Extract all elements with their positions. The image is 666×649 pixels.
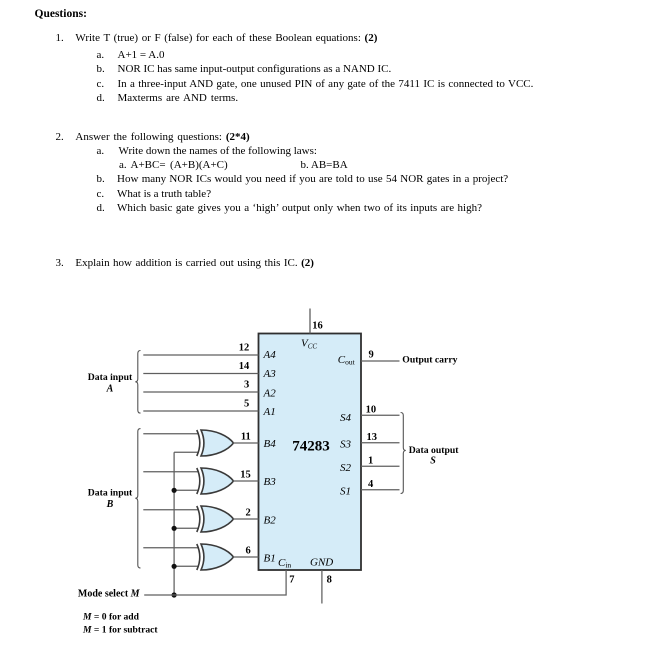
wire G2 output (233, 480, 259, 482)
svg-text:6: 6 (246, 546, 251, 557)
svg-text:Data input: Data input (88, 372, 133, 383)
brace data input B (135, 429, 140, 568)
wire G4 output (233, 556, 259, 558)
svg-text:12: 12 (239, 342, 250, 353)
wire Cout (361, 360, 400, 362)
svg-text:A2: A2 (263, 387, 277, 399)
wire B4 input (143, 433, 198, 435)
svg-text:10: 10 (366, 404, 377, 415)
question 2 (56, 131, 64, 143)
svg-text:8: 8 (327, 574, 332, 585)
wire S4 (361, 414, 400, 416)
XOR G4 lower input (174, 565, 198, 567)
svg-text:B4: B4 (264, 438, 277, 450)
wire A3 (143, 373, 258, 375)
svg-text:13: 13 (367, 432, 378, 443)
svg-text:B: B (106, 499, 114, 510)
junction dot G3 (172, 526, 177, 531)
svg-text:M = 0 for add: M = 0 for add (82, 611, 140, 622)
svg-text:A4: A4 (263, 349, 277, 361)
junction dot M line (172, 592, 177, 597)
XOR gate G2 (197, 468, 234, 494)
junction dot G2 (172, 488, 177, 493)
wire B3 input (143, 471, 198, 473)
svg-text:Output carry: Output carry (402, 355, 457, 366)
svg-text:15: 15 (240, 470, 251, 481)
svg-text:74283: 74283 (292, 438, 330, 454)
svg-text:A3: A3 (263, 368, 277, 380)
svg-text:14: 14 (239, 361, 250, 372)
wire S2 (361, 465, 400, 467)
svg-text:A: A (106, 384, 114, 395)
junction dot G4 (172, 564, 177, 569)
svg-text:S4: S4 (340, 412, 352, 424)
svg-text:5: 5 (244, 398, 249, 409)
svg-text:16: 16 (312, 320, 323, 331)
svg-text:B1: B1 (264, 552, 276, 564)
svg-text:9: 9 (369, 350, 374, 361)
svg-text:A1: A1 (263, 406, 276, 418)
XOR gate G4 (197, 544, 234, 570)
wire B2 input (143, 509, 198, 511)
svg-text:Data input: Data input (88, 488, 133, 499)
question 3 (56, 257, 64, 269)
question 1 (56, 32, 64, 44)
svg-text:S3: S3 (340, 439, 352, 451)
wire A4 (143, 354, 258, 356)
mode select vertical bus (173, 452, 175, 595)
XOR G3 lower input (174, 527, 198, 529)
svg-text:S2: S2 (340, 462, 352, 474)
svg-text:Mode select M: Mode select M (78, 589, 141, 600)
XOR G1 lower input (174, 451, 198, 453)
brace data output S (401, 413, 406, 494)
brace data input A (135, 351, 140, 414)
svg-text:GND: GND (310, 557, 333, 569)
wire A2 (143, 391, 258, 393)
wire G1 output (233, 442, 259, 444)
svg-text:S: S (430, 456, 436, 467)
svg-text:4: 4 (368, 479, 374, 490)
svg-text:B2: B2 (264, 514, 277, 526)
heading (35, 8, 87, 20)
svg-text:Data output: Data output (409, 445, 460, 456)
svg-text:M = 1 for subtract: M = 1 for subtract (82, 625, 158, 636)
wire G3 output (233, 518, 259, 520)
svg-text:S1: S1 (340, 485, 351, 497)
svg-text:1: 1 (368, 456, 373, 467)
XOR G2 lower input (174, 489, 198, 491)
svg-text:11: 11 (241, 432, 251, 443)
svg-text:2: 2 (246, 508, 251, 519)
svg-text:3: 3 (244, 380, 249, 391)
svg-text:B3: B3 (264, 476, 277, 488)
wire S3 (361, 442, 400, 444)
XOR gate G3 (197, 506, 234, 532)
GND pin stub (321, 570, 323, 604)
wire S1 (361, 489, 400, 491)
Vcc pin stub (309, 309, 311, 334)
XOR gate G1 (197, 430, 234, 456)
svg-text:7: 7 (289, 574, 294, 585)
wire mode select M to Cin (144, 570, 286, 595)
wire B1 input (143, 547, 198, 549)
wire A1 (143, 410, 258, 412)
IC body 74283 (259, 334, 362, 571)
